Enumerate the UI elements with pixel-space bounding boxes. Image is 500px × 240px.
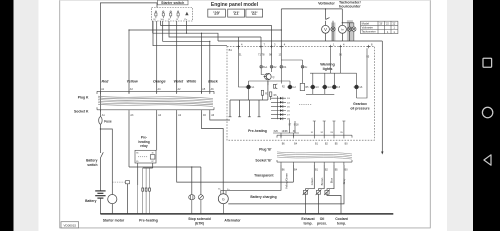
starter switch pin labels: [153, 19, 187, 21]
svg-text:Battery: Battery: [85, 199, 97, 203]
indicator lamp Dx: [301, 65, 304, 68]
wire violet A2 drop: [176, 21, 178, 93]
wire senders drops: [293, 165, 341, 214]
plug B pin labels: [282, 142, 348, 145]
svg-text:Engine panel model: Engine panel model: [211, 2, 259, 8]
wire color labels: [102, 80, 219, 84]
harness K wavy cable: [98, 96, 213, 106]
wire battery to ground bus: [99, 198, 101, 214]
wire tachometer drop: [341, 9, 343, 25]
svg-text:Model: Model: [362, 21, 370, 25]
voltmeter V: [322, 25, 330, 33]
page right border: [429, 0, 431, 228]
resistor R1: [261, 90, 263, 95]
nav home circle icon: [482, 107, 492, 117]
warning lamp L1: [246, 85, 252, 89]
svg-text:temp.: temp.: [337, 222, 346, 226]
svg-text:White: White: [187, 80, 197, 84]
svg-text:hourcounter: hourcounter: [339, 4, 361, 8]
svg-text:Q: Q: [273, 76, 275, 79]
oil pressure sender: [316, 190, 320, 194]
connector X29 labels: [274, 123, 300, 133]
svg-text:'21': '21': [233, 11, 240, 16]
page left border: [59, 0, 61, 228]
wire gearbox lamp return: [357, 48, 368, 98]
panel lamp 2: [347, 27, 356, 31]
svg-text:Yellow/Green: Yellow/Green: [285, 173, 289, 189]
wire A5 drop: [201, 33, 203, 93]
engine ground bus: [100, 213, 393, 215]
wire relay coil return: [138, 163, 153, 188]
svg-text:Fuse: Fuse: [104, 120, 112, 124]
svg-text:Violet: Violet: [174, 80, 184, 84]
wire black A6 drop via top: [163, 21, 210, 93]
svg-text:Plug K: Plug K: [78, 95, 89, 99]
resistor R2: [270, 92, 272, 97]
buzzer R4: [273, 84, 277, 89]
socket B pin labels: [282, 168, 348, 171]
wire lamp drop: [332, 21, 334, 27]
svg-text:Brown: Brown: [320, 177, 324, 185]
left phone bezel bar: [0, 0, 14, 231]
svg-text:V: V: [324, 27, 327, 32]
svg-text:Starter motor: Starter motor: [103, 219, 125, 223]
svg-text:87: 87: [152, 161, 154, 163]
dashed note line: [299, 104, 312, 106]
warning lamp L4: [322, 85, 328, 89]
panel output stub wires with pin bars: [229, 81, 268, 117]
wire orange A4 drop: [156, 21, 158, 93]
fuse: [99, 117, 102, 124]
battery switch contact: [100, 152, 103, 158]
svg-text:Exhaust: Exhaust: [301, 217, 315, 221]
svg-text:'22': '22': [251, 11, 258, 16]
panel top terminals: [237, 45, 370, 48]
wire twin lamp branch: [342, 22, 354, 24]
left gray margin strip: [14, 0, 39, 231]
model option table: [361, 21, 398, 33]
wire socket A6 to panel stub: [210, 112, 230, 121]
svg-text:'20': '20': [213, 11, 220, 16]
harness B wavy cable: [277, 152, 352, 159]
starter switch contacts: [155, 11, 189, 18]
starter switch dashed enclosure: [152, 8, 193, 22]
indicator lamp D2: [270, 65, 273, 68]
plug B rail: [277, 135, 352, 138]
wire sender stubs from panel: [313, 121, 346, 135]
svg-text:Voltmeter: Voltmeter: [318, 2, 335, 6]
svg-text:'21': '21': [386, 23, 390, 25]
wire fuse branch to starter motor: [100, 129, 112, 194]
svg-text:lights: lights: [323, 67, 333, 71]
wire terminal 98 drop: [271, 48, 273, 72]
svg-text:VD00015: VD00015: [64, 223, 77, 227]
battery cell plates: [95, 191, 105, 198]
diode stack D3-D8: [271, 96, 286, 119]
svg-text:Pre-heating: Pre-heating: [139, 219, 158, 223]
svg-text:15: 15: [168, 19, 170, 21]
stop solenoid: [189, 195, 204, 214]
socket B rail: [277, 160, 352, 165]
svg-text:17e: 17e: [184, 19, 187, 21]
svg-text:9/18: 9/18: [294, 123, 299, 126]
wire battery switch lower segment: [99, 158, 101, 191]
wire terminal 71/78 to transistor: [261, 48, 264, 74]
right gray margin strip: [447, 0, 473, 231]
coolant temp sender: [325, 190, 329, 194]
panel lamp 3: [352, 27, 356, 31]
vertical wire color labels: [285, 173, 347, 189]
svg-text:Transparent: Transparent: [254, 174, 274, 178]
svg-text:86: 86: [136, 153, 138, 155]
svg-text:71/78: 71/78: [258, 52, 265, 56]
warning lamp L6 gearbox: [354, 85, 360, 89]
harness shade band 1: [331, 23, 335, 42]
wire battery charging: [228, 165, 344, 204]
svg-text:Black: Black: [208, 80, 219, 84]
svg-text:Orange: Orange: [153, 80, 166, 84]
panel terminal number labels: [229, 43, 373, 59]
svg-text:2: 2: [317, 193, 318, 195]
wire panel feed to meters: [281, 8, 342, 10]
svg-text:Yellow: Yellow: [127, 80, 138, 84]
svg-text:B+1: B+1: [263, 67, 268, 69]
svg-text:Stop solenoid: Stop solenoid: [188, 217, 210, 221]
model box 21: [228, 9, 245, 17]
switch contact voltmeter: [326, 18, 330, 20]
svg-text:Battery charging: Battery charging: [250, 195, 276, 199]
glow plugs: [138, 185, 151, 214]
connector X29 wires: [273, 120, 299, 137]
svg-text:oil pressure: oil pressure: [350, 106, 369, 110]
svg-text:'22': '22': [392, 23, 396, 25]
wire terminal 15 drop: [281, 48, 302, 83]
indicator lamp D4: [280, 65, 283, 68]
panel lamp 1: [331, 27, 335, 31]
instrument panel dashed enclosure: [227, 46, 375, 140]
svg-text:Grey: Grey: [342, 178, 346, 184]
wire charge lamp line: [221, 165, 281, 190]
tachometer dial: [338, 25, 346, 33]
svg-text:Coolant: Coolant: [335, 217, 348, 221]
page top faint border: [60, 0, 431, 1]
svg-text:Voltmeter: Voltmeter: [362, 26, 373, 30]
wire voltmeter drop: [325, 9, 327, 19]
panel supply rail: [218, 40, 382, 42]
exhaust temp sender: [303, 190, 330, 196]
wire warning lamps feed: [331, 48, 341, 73]
svg-text:Green: Green: [310, 177, 314, 185]
transistor Q2: [265, 73, 272, 80]
model box 22: [246, 9, 263, 17]
svg-text:X29: X29: [274, 130, 279, 133]
svg-text:Alternator: Alternator: [224, 219, 241, 223]
plug K rail with pins: [97, 91, 214, 111]
svg-text:19/98: 19/98: [282, 130, 289, 133]
page bottom border: [60, 227, 431, 229]
svg-text:Oil: Oil: [320, 217, 325, 221]
wire voltmeter feed bus: [129, 21, 281, 48]
svg-text:press.: press.: [317, 222, 327, 226]
drawing number box VD00015: [61, 222, 79, 228]
nav back triangle icon: [484, 155, 491, 165]
svg-text:switch: switch: [87, 163, 97, 167]
wire stop solenoid feed: [129, 167, 201, 195]
svg-text:hr: hr: [341, 28, 343, 32]
alternator: [218, 194, 228, 204]
starter switch label box: [158, 0, 189, 5]
pre-heating relay box: [135, 150, 156, 163]
svg-text:30: 30: [152, 153, 154, 155]
svg-text:G: G: [222, 197, 225, 201]
wire to panel terminal 31: [169, 21, 261, 49]
wire socket A2 drop to engine: [177, 112, 294, 183]
wire socket A4 to relay: [156, 112, 158, 151]
svg-text:Gearbox: Gearbox: [353, 102, 367, 106]
gearbox sender feed wire with arrow: [381, 41, 383, 153]
wire terminal 31 drop: [239, 48, 368, 98]
socket K rail with pins: [97, 107, 214, 110]
svg-text:Tachometer: Tachometer: [362, 30, 376, 34]
socket K pin labels: [102, 114, 215, 117]
svg-text:85: 85: [136, 161, 138, 163]
svg-text:Warning: Warning: [320, 63, 335, 67]
wire starter switch feed to left rail: [100, 3, 157, 153]
harness shade band 2: [347, 20, 353, 41]
svg-text:Blue: Blue: [330, 177, 334, 183]
nav recents square icon: [483, 58, 492, 67]
wire pin 30 to dashed box corner: [153, 21, 227, 46]
svg-text:Plug 'B': Plug 'B': [259, 148, 272, 152]
plug K pin labels: [101, 88, 214, 91]
svg-text:Pre-heating: Pre-heating: [248, 129, 267, 133]
svg-text:Starter switch: Starter switch: [161, 1, 184, 5]
svg-text:(ETR): (ETR): [195, 222, 204, 226]
svg-text:Socket K: Socket K: [74, 109, 89, 113]
indicator lamp B+1: [260, 65, 304, 68]
svg-text:relay: relay: [140, 144, 148, 148]
wire socket A5 to alternator: [202, 112, 224, 194]
wire yellow A3 feed: [153, 21, 187, 33]
svg-text:temp.: temp.: [303, 222, 312, 226]
right phone nav bar: [473, 0, 500, 231]
resistor R5: [300, 83, 304, 90]
model box 20: [208, 9, 226, 17]
starter solenoid contact: [112, 181, 125, 183]
svg-text:30: 30: [153, 19, 155, 21]
warning lamp L3: [310, 85, 316, 89]
starter motor: [108, 195, 117, 204]
svg-text:'20': '20': [379, 23, 383, 25]
svg-text:19: 19: [176, 19, 178, 21]
lamp drop wires: [249, 73, 357, 100]
svg-text:Red: Red: [102, 80, 110, 84]
svg-text:B1: B1: [229, 48, 233, 52]
warning lamp L5: [331, 85, 337, 89]
wire socket A3 drop: [100, 112, 293, 195]
svg-text:Socket 'B': Socket 'B': [255, 158, 271, 162]
warning lamp L2: [287, 85, 293, 89]
